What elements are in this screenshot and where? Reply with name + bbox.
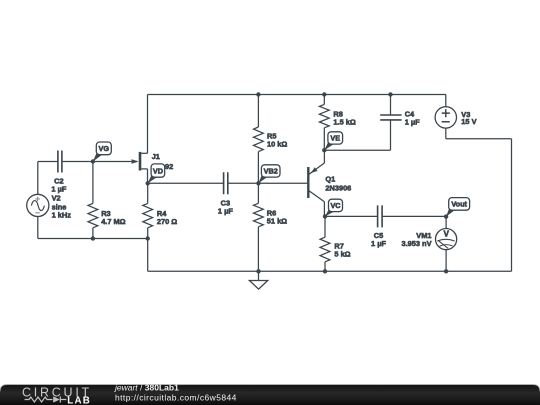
svg-text:VB2: VB2 xyxy=(264,167,278,176)
resistor R6 xyxy=(254,183,264,271)
svg-text:51 kΩ: 51 kΩ xyxy=(267,216,287,225)
junction bottom-left rail / R3 xyxy=(91,236,95,240)
label V2 value xyxy=(52,194,72,220)
junction bottom-left rail / R4 xyxy=(146,236,150,240)
resistor R4 xyxy=(143,183,153,238)
svg-text:1 µF: 1 µF xyxy=(218,207,233,216)
svg-text:1 µF: 1 µF xyxy=(405,118,420,127)
svg-text:4.7 MΩ: 4.7 MΩ xyxy=(101,217,125,226)
svg-text:jewart / 380Lab1: jewart / 380Lab1 xyxy=(114,382,179,392)
resistor R5 xyxy=(254,95,264,184)
resistor R7 xyxy=(320,216,330,271)
capacitor C2 xyxy=(58,151,62,173)
svg-text:R7: R7 xyxy=(334,241,343,250)
label Q1 value xyxy=(325,175,351,193)
label R6 value xyxy=(267,208,287,225)
svg-text:R8: R8 xyxy=(333,109,342,118)
label C2 value xyxy=(51,176,66,193)
node VD xyxy=(146,164,165,186)
wire step down to ground rail xyxy=(147,239,149,272)
svg-text:Q1: Q1 xyxy=(325,175,335,184)
label R3 value xyxy=(101,209,125,226)
wire bottom ground rail xyxy=(148,270,512,272)
wire right edge return xyxy=(446,128,512,271)
label C4 value xyxy=(405,109,420,126)
svg-text:10 kΩ: 10 kΩ xyxy=(267,140,287,149)
svg-text:http://circuitlab.com/c6w5844: http://circuitlab.com/c6w5844 xyxy=(115,392,237,402)
wire V2 bottom lead xyxy=(37,216,39,238)
wire C4 to top rail xyxy=(390,95,392,116)
label R7 value xyxy=(334,241,350,258)
label V3 value xyxy=(461,110,476,126)
wire J1 drain to top rail xyxy=(147,95,149,154)
voltmeter VM1 xyxy=(436,229,457,250)
wire top supply rail xyxy=(148,94,447,96)
svg-text:92: 92 xyxy=(165,162,173,171)
label R8 value xyxy=(333,109,355,126)
voltage source V3 xyxy=(435,107,456,128)
svg-text:5 kΩ: 5 kΩ xyxy=(334,250,350,259)
svg-text:VG: VG xyxy=(99,144,110,153)
CircuitLab logo resistor-diode glyph xyxy=(25,396,67,402)
svg-text:1 µF: 1 µF xyxy=(51,184,66,193)
CircuitLab logo wordmark xyxy=(22,386,92,405)
junction top rail / R5 xyxy=(256,92,260,96)
wire VM1 to ground rail xyxy=(445,250,447,272)
svg-text:V2: V2 xyxy=(52,194,61,203)
svg-text:Vout: Vout xyxy=(451,200,467,209)
junction top rail / R8 xyxy=(322,92,326,96)
wire base line VD-C3-VB2-Q1 xyxy=(148,182,308,184)
junction ground rail / R7 xyxy=(323,269,327,273)
wire V3 to top rail xyxy=(445,95,447,107)
label R4 value xyxy=(157,209,177,226)
svg-text:1 µF: 1 µF xyxy=(371,239,386,248)
svg-text:2N3906: 2N3906 xyxy=(325,184,351,193)
node VB2 xyxy=(256,165,280,186)
junction ground rail / VM1 xyxy=(444,269,448,273)
wire bottom-left rail xyxy=(38,238,148,240)
voltage source V2 xyxy=(27,194,49,216)
svg-text:270 Ω: 270 Ω xyxy=(157,217,177,226)
svg-text:VC: VC xyxy=(330,201,341,210)
svg-text:1.5 kΩ: 1.5 kΩ xyxy=(333,118,355,127)
capacitor C3 xyxy=(224,172,228,194)
junction top rail / C4 xyxy=(388,92,392,96)
transistor Q1 (PNP 2N3906) xyxy=(308,150,324,216)
label R5 value xyxy=(267,132,287,149)
svg-text:1 kHz: 1 kHz xyxy=(52,211,72,220)
resistor R8 xyxy=(319,95,329,151)
wire V2 top lead xyxy=(37,162,39,195)
footer title text xyxy=(114,382,179,392)
label VM1 value xyxy=(402,231,432,248)
node VE xyxy=(322,132,343,153)
label C3 value xyxy=(218,198,233,215)
wire VE to C4 xyxy=(324,120,390,150)
svg-text:V: V xyxy=(443,230,449,239)
svg-text:J1: J1 xyxy=(152,152,160,161)
svg-text:15 V: 15 V xyxy=(461,117,476,126)
node VC xyxy=(323,199,343,218)
capacitor C5 xyxy=(378,205,383,227)
label J1 xyxy=(152,152,160,161)
svg-text:3.953 nV: 3.953 nV xyxy=(402,239,432,248)
resistor R3 xyxy=(88,162,98,239)
transistor J1 (JFET) xyxy=(132,152,148,183)
wire VC to C5 to Vout xyxy=(325,215,446,217)
node Vout xyxy=(444,198,470,219)
wire Vout to VM1 xyxy=(445,216,447,228)
label 92 (partially hidden part number) xyxy=(165,162,173,171)
junction ground rail / R6 / ground xyxy=(256,269,260,273)
capacitor C4 xyxy=(380,115,401,120)
ground xyxy=(249,271,267,289)
footer url text xyxy=(115,392,237,402)
label C5 value xyxy=(371,231,386,248)
svg-text:VD: VD xyxy=(153,166,163,175)
svg-text:C4: C4 xyxy=(405,109,415,118)
svg-text:sine: sine xyxy=(52,202,67,211)
wire gate line C2 to J1 xyxy=(38,161,137,163)
footer bar xyxy=(0,385,540,405)
svg-text:VE: VE xyxy=(330,134,340,143)
svg-text:C3: C3 xyxy=(221,198,230,207)
node VG xyxy=(91,142,112,164)
svg-text:LAB: LAB xyxy=(67,395,91,405)
